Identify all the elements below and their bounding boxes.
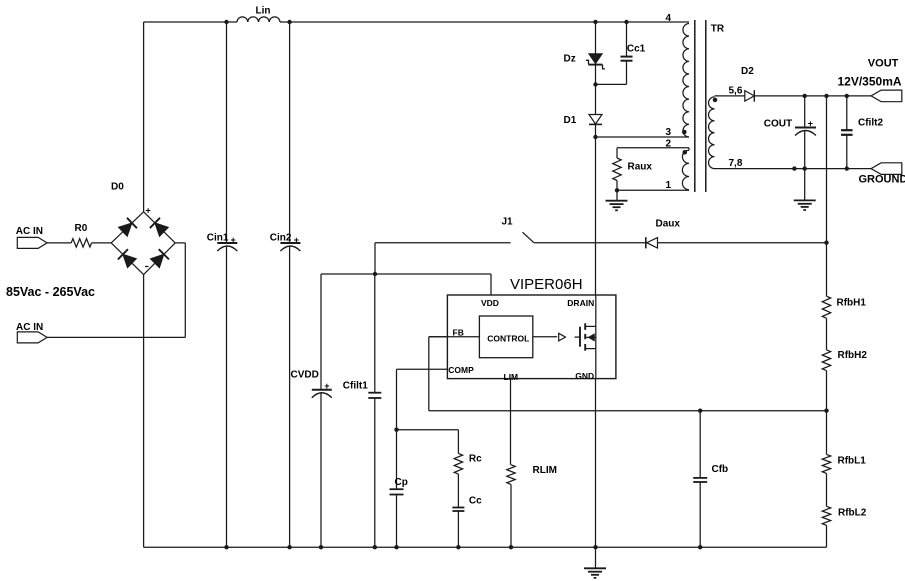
svg-text:COMP: COMP xyxy=(448,365,474,375)
svg-text:TR: TR xyxy=(711,24,725,35)
wire FB node to RfbL1 xyxy=(826,411,828,455)
wire RfbL1 to RfbL2 xyxy=(826,473,828,506)
junction on top rail at Cc1 branch xyxy=(624,20,628,24)
wire COMP down xyxy=(396,369,398,429)
label VOUT xyxy=(868,58,899,70)
label RfbL2 xyxy=(838,507,867,518)
junction on top rail at Cin2 xyxy=(287,20,291,24)
svg-text:Cc: Cc xyxy=(469,496,482,507)
bridge diode D0-2 (upper-left arm) xyxy=(119,218,137,237)
svg-text:Cp: Cp xyxy=(395,477,408,488)
transistor Q1 MOSFET gate xyxy=(579,327,581,347)
pin label LIM xyxy=(504,372,519,382)
junction VDD node at Cfilt1 xyxy=(373,272,377,276)
wire FB to left xyxy=(429,336,448,338)
junction Daux at feedback chain xyxy=(824,241,828,245)
transistor Q1 MOSFET channel xyxy=(584,323,586,350)
junction RLIM bottom rail xyxy=(509,545,513,549)
junction Dz/Cc1/D1 node xyxy=(593,82,597,86)
wire secondary bottom to GROUND conn xyxy=(715,168,872,170)
svg-text:+: + xyxy=(808,119,813,129)
svg-text:GND: GND xyxy=(575,371,594,381)
wire pin 3 to drain node xyxy=(596,136,690,138)
junction FB line at divider xyxy=(824,409,828,413)
wire GND pin to rail xyxy=(595,349,597,548)
wire CONTROL output xyxy=(533,336,557,338)
wire AC IN to R0 xyxy=(47,242,71,244)
svg-text:D2: D2 xyxy=(741,66,754,77)
label RLIM xyxy=(533,465,557,476)
wire left vertical (bridge - to bottom rail) xyxy=(143,275,145,548)
pin label DRAIN xyxy=(567,298,594,308)
label pin 1 xyxy=(666,180,672,191)
capacitor COUT (wires) xyxy=(804,96,806,200)
junction Cp bottom rail xyxy=(394,545,398,549)
svg-text:VDD: VDD xyxy=(481,298,499,308)
wire FB down xyxy=(428,337,430,411)
bridge diode D0-1 (lower-left arm) xyxy=(118,249,136,268)
inductor Lin xyxy=(237,17,280,22)
wire RfbH2 to FB node xyxy=(826,371,828,411)
junction Raux ground node xyxy=(615,188,619,192)
svg-text:R0: R0 xyxy=(75,223,88,234)
connector AC IN (neutral) xyxy=(17,332,47,343)
capacitor Cfilt1 (plates) xyxy=(368,393,381,398)
svg-text:1: 1 xyxy=(666,180,672,191)
svg-text:J1: J1 xyxy=(502,217,514,228)
transistor Q1 source stub xyxy=(585,326,596,348)
capacitor Cfilt2 (plates) xyxy=(841,130,853,135)
label Raux xyxy=(628,162,653,173)
resistor RfbL1 xyxy=(822,454,830,473)
wire D2 to VOUT xyxy=(754,95,871,97)
svg-text:12V/350mA: 12V/350mA xyxy=(838,75,902,89)
wire COMP to left xyxy=(397,368,448,370)
wire LIM pin down xyxy=(510,379,512,465)
wire J1 to Daux xyxy=(534,242,646,244)
svg-text:+: + xyxy=(294,235,299,245)
wire VDD pin drop xyxy=(490,274,492,295)
svg-text:DRAIN: DRAIN xyxy=(567,298,594,308)
junction Cfb bottom rail xyxy=(698,545,702,549)
label 12V/350mA xyxy=(838,75,902,89)
pin label VDD xyxy=(481,298,499,308)
svg-text:COUT: COUT xyxy=(764,118,792,129)
wire pin 1 to ground node xyxy=(617,189,689,191)
bridge diode D0-3 (upper-right arm) xyxy=(150,218,168,237)
svg-text:Cin1: Cin1 xyxy=(207,233,229,244)
wire VDD horizontal xyxy=(321,273,491,275)
wire bottom rail xyxy=(144,546,827,548)
wire COMP node to Rc xyxy=(397,430,459,454)
wire RLIM to rail xyxy=(510,484,512,547)
svg-text:Cin2: Cin2 xyxy=(270,233,292,244)
wire drain above box xyxy=(595,137,597,295)
capacitor CVDD (wires) xyxy=(320,274,322,547)
label Cfilt1 xyxy=(343,380,368,391)
bridge + mark xyxy=(146,206,151,216)
label COUT xyxy=(764,118,813,129)
label CONTROL xyxy=(487,334,529,344)
label pins 5,6 xyxy=(729,85,743,96)
pin label COMP xyxy=(448,365,474,375)
svg-text:Cfilt1: Cfilt1 xyxy=(343,380,368,391)
capacitor Cc (plates) xyxy=(452,508,464,512)
label 85Vac - 265Vac xyxy=(6,285,95,299)
wire pin 2 to aux loop xyxy=(617,148,689,150)
svg-text:+: + xyxy=(146,206,151,216)
junction drain node (pin 3) xyxy=(593,135,597,139)
gate driver arrow xyxy=(559,333,566,341)
label VIPER06H xyxy=(510,276,583,293)
label Cc xyxy=(469,496,482,507)
svg-text:VIPER06H: VIPER06H xyxy=(510,276,583,293)
label RfbH2 xyxy=(838,350,868,361)
transistor Q1 drain stub xyxy=(585,295,596,326)
wire Raux to ground node xyxy=(616,181,618,191)
label Rc xyxy=(469,454,482,465)
svg-text:Cfilt2: Cfilt2 xyxy=(858,117,883,128)
label Cin2 xyxy=(270,233,299,245)
diode Daux xyxy=(646,237,658,248)
wire FB horizontal to divider xyxy=(429,410,827,412)
resistor RfbL2 xyxy=(822,506,830,525)
capacitor CVDD (plates) xyxy=(312,390,332,398)
phase dot pins 5,6 xyxy=(713,98,718,103)
capacitor Cc1 (wires) xyxy=(596,22,627,84)
junction on top rail at Dz branch xyxy=(593,20,597,24)
junction COMP node xyxy=(394,428,398,432)
svg-text:AC IN: AC IN xyxy=(16,226,43,237)
svg-text:CONTROL: CONTROL xyxy=(487,334,529,344)
capacitor Cin2 (wire) xyxy=(289,22,291,547)
transformer TR primary winding (pins 4-3) xyxy=(683,24,689,137)
junction FB line at Cfb xyxy=(698,409,702,413)
wire RfbL2 to rail xyxy=(826,525,828,547)
label Lin xyxy=(256,6,271,17)
op-amp U1 VIPER06H (body) xyxy=(447,295,616,379)
svg-text:Dz: Dz xyxy=(564,54,576,65)
label AC IN (neutral) xyxy=(16,322,43,333)
switch J1 blade xyxy=(523,232,534,243)
svg-text:Raux: Raux xyxy=(628,162,653,173)
junction secondary bottom (stray) xyxy=(792,166,796,170)
transformer TR secondary winding (pins 5,6-7,8) xyxy=(709,97,715,169)
svg-text:4: 4 xyxy=(666,13,672,24)
control block (box) xyxy=(479,316,532,358)
svg-text:AC IN: AC IN xyxy=(16,322,43,333)
svg-text:3: 3 xyxy=(666,127,672,138)
junction VOUT wire at COUT xyxy=(803,94,807,98)
label GROUND xyxy=(859,174,905,186)
label pin 2 xyxy=(666,138,672,149)
svg-text:D0: D0 xyxy=(111,182,124,193)
resistor Raux xyxy=(613,158,621,181)
wire top rail to Dz xyxy=(595,22,597,54)
label D1 xyxy=(564,115,577,126)
capacitor Cfilt1 (wires) xyxy=(374,274,376,547)
capacitor Cc1 (plates) xyxy=(621,57,633,61)
resistor Rc xyxy=(454,453,462,474)
capacitor Cp (plates) xyxy=(390,489,404,494)
label Cc1 xyxy=(627,44,646,55)
wire AC IN neutral to bridge xyxy=(47,243,185,338)
svg-text:FB: FB xyxy=(453,327,464,337)
capacitor Cfilt2 (wires) xyxy=(846,96,848,169)
wire top rail (rectified bus, left of Lin) xyxy=(144,21,237,23)
capacitor Cfb (wires) xyxy=(699,411,701,548)
svg-text:CVDD: CVDD xyxy=(291,369,319,380)
wire aux loop left xyxy=(616,148,618,158)
junction Cin1 bottom rail xyxy=(224,545,228,549)
bridge - mark xyxy=(145,266,149,268)
label TR xyxy=(711,24,725,35)
wire Daux to feedback chain xyxy=(658,242,827,244)
svg-text:RfbH1: RfbH1 xyxy=(837,298,867,309)
svg-text:VOUT: VOUT xyxy=(868,58,899,70)
phase dot pin 2 xyxy=(683,150,688,155)
svg-text:GROUND: GROUND xyxy=(859,174,905,186)
diode D2 xyxy=(745,90,755,102)
connector VOUT xyxy=(871,90,902,102)
connector AC IN (line) xyxy=(17,237,47,248)
capacitor Cfb (plates) xyxy=(693,478,707,482)
wire Cc to rail xyxy=(457,511,459,547)
svg-text:Rc: Rc xyxy=(469,454,482,465)
resistor RfbH1 xyxy=(822,296,830,318)
label AC IN (line) xyxy=(16,226,43,237)
svg-text:D1: D1 xyxy=(564,115,577,126)
wire RfbH1 to RfbH2 xyxy=(826,318,828,350)
svg-text:Cfb: Cfb xyxy=(712,464,729,475)
svg-text:RfbL2: RfbL2 xyxy=(838,507,867,518)
junction Cfilt1 bottom rail xyxy=(373,545,377,549)
resistor RfbH2 xyxy=(822,350,830,371)
label D2 xyxy=(741,66,754,77)
label RfbH1 xyxy=(837,298,867,309)
svg-text:Cc1: Cc1 xyxy=(627,44,646,55)
zener diode Dz xyxy=(586,54,605,69)
label RfbL1 xyxy=(838,455,867,466)
svg-text:RLIM: RLIM xyxy=(533,465,557,476)
label Daux xyxy=(656,219,681,230)
wire node to D1 xyxy=(595,84,597,114)
label pin 4 xyxy=(666,13,672,24)
bridge diode D0-4 (lower-right arm) xyxy=(151,249,169,267)
junction on top rail at Cin1 xyxy=(224,20,228,24)
junction VOUT wire at Cfilt2 xyxy=(845,94,849,98)
svg-text:RfbL1: RfbL1 xyxy=(838,455,867,466)
svg-text:RfbH2: RfbH2 xyxy=(838,350,868,361)
junction CVDD bottom rail xyxy=(319,545,323,549)
connector GROUND xyxy=(871,163,902,175)
label J1 xyxy=(502,217,514,228)
wire divider top xyxy=(826,96,828,296)
svg-text:7,8: 7,8 xyxy=(729,158,743,169)
label Cin1 xyxy=(207,233,236,245)
junction GND at bottom rail xyxy=(593,545,597,549)
junction secondary bottom at Cfilt2 xyxy=(845,166,849,170)
wire D1 to drain node xyxy=(595,124,597,137)
label Cfilt2 xyxy=(858,117,883,128)
svg-text:+: + xyxy=(231,235,236,245)
junction Cc bottom rail xyxy=(456,545,460,549)
label Cp xyxy=(395,477,408,488)
pin label FB xyxy=(453,327,464,337)
junction secondary bottom at COUT xyxy=(803,166,807,170)
wire R0 to bridge xyxy=(92,242,112,244)
diode bridge D0 (diamond) xyxy=(111,212,175,275)
pin label GND xyxy=(575,371,594,381)
wire J1 left xyxy=(375,242,511,244)
ground (aux winding) xyxy=(606,190,628,210)
capacitor Cin1 (wire) xyxy=(226,22,228,547)
junction VOUT wire at feedback chain xyxy=(824,94,828,98)
wire VDD node riser to J1 xyxy=(374,243,376,274)
label pin 3 xyxy=(666,127,672,138)
wire secondary top to D2 xyxy=(715,95,745,97)
transistor Q1 body arrow xyxy=(585,334,596,340)
label CVDD xyxy=(291,369,330,391)
transistor Q1 gate lead xyxy=(575,336,579,338)
ground (COUT) xyxy=(794,200,816,210)
capacitor Cp (wires) xyxy=(396,430,398,548)
svg-text:Lin: Lin xyxy=(256,6,271,17)
wire top rail (Lin to transformer pin 4) xyxy=(280,21,689,23)
label pins 7,8 xyxy=(729,158,743,169)
wire left vertical (top rail to bridge +) xyxy=(143,22,145,212)
capacitor Cin1 (plates) xyxy=(217,243,237,251)
svg-text:Daux: Daux xyxy=(656,219,681,230)
ground (main) xyxy=(584,547,606,578)
svg-text:5,6: 5,6 xyxy=(729,85,743,96)
svg-text:+: + xyxy=(324,381,329,391)
wire Rc to Cc xyxy=(457,474,459,507)
phase dot pin 3 xyxy=(682,130,687,135)
capacitor Cin2 (plates) xyxy=(280,243,300,251)
label R0 xyxy=(75,223,88,234)
capacitor COUT (plates) xyxy=(795,128,816,136)
diode D1 xyxy=(589,115,602,125)
transformer core xyxy=(695,20,706,192)
resistor RLIM xyxy=(507,465,515,485)
wire Dz to node xyxy=(595,65,597,85)
label D0 xyxy=(111,182,124,193)
junction Cin2 bottom rail xyxy=(287,545,291,549)
label Dz xyxy=(564,54,576,65)
wire FB into CONTROL xyxy=(429,336,480,338)
label Cfb xyxy=(712,464,729,475)
svg-text:85Vac - 265Vac: 85Vac - 265Vac xyxy=(6,285,95,299)
transformer TR auxiliary winding (pins 2-1) xyxy=(682,150,689,190)
resistor R0 xyxy=(71,239,91,247)
